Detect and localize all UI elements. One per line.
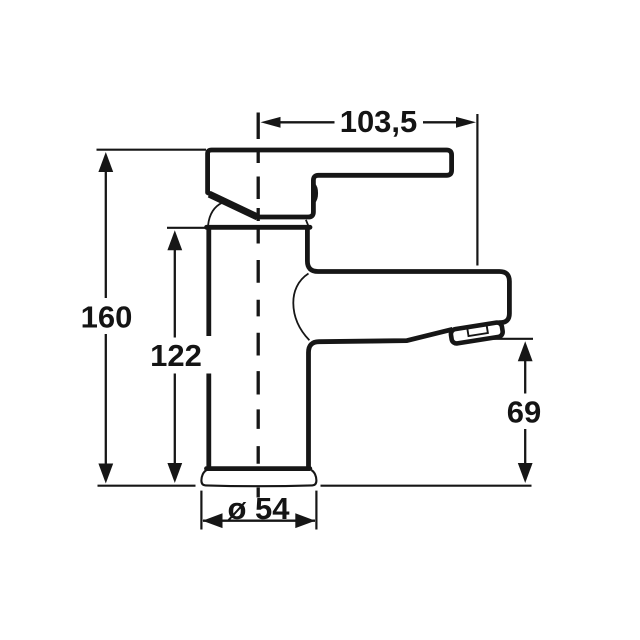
dimension 160 : top arrow <box>98 152 113 172</box>
dimension 160 : top extension line <box>97 149 207 151</box>
dimension 103,5 : right extension line <box>476 114 478 266</box>
svg-text:160: 160 <box>81 299 133 334</box>
handle outline (lever) <box>208 150 452 217</box>
dimension 103,5 : left arrow <box>261 117 281 128</box>
dimension 69 : line lower segment <box>524 429 526 464</box>
base flange <box>201 470 316 486</box>
dimension ø54 : dimension line <box>203 520 315 522</box>
body right edge + spout outline <box>307 227 509 322</box>
dimension 69 : bottom arrow (pointing down) <box>518 463 533 483</box>
aerator inner slot <box>467 326 488 337</box>
dimension ø54 : right arrow (pointing right) <box>295 513 315 528</box>
dimension ø54 : left arrow (pointing left) <box>203 513 223 528</box>
svg-text:69: 69 <box>507 395 541 430</box>
dimension 160 : bottom arrow <box>98 464 113 484</box>
dimension 103,5 : right arrow <box>456 117 476 128</box>
dimension 122 : line lower segment <box>174 374 176 465</box>
dimension 160 : line upper segment <box>105 170 107 298</box>
dimension 103,5 : line left segment <box>278 121 335 123</box>
body bottom edge <box>207 466 310 471</box>
dimension 122 : top extension line <box>167 227 206 229</box>
dimension 122 : line upper segment <box>174 248 176 337</box>
svg-text:122: 122 <box>150 338 202 373</box>
spout underside + body right edge lower <box>309 329 453 468</box>
cartridge bulge on neck right edge <box>313 185 316 202</box>
neck contour line right <box>306 220 309 226</box>
dimension 69 : top reference line at aerator <box>494 338 534 340</box>
mounting surface line right segment <box>321 485 532 487</box>
handle diagonal thick edge <box>209 194 257 217</box>
dimension ø54 : left extension line <box>200 491 202 530</box>
dimension 160 : line lower segment <box>105 334 107 464</box>
aerator outer housing <box>450 322 503 344</box>
dimension 69 : top arrow (pointing up) <box>518 341 533 361</box>
body left edge lower segment <box>206 374 211 469</box>
dome contour arc top-left of body <box>208 203 222 226</box>
dimension ø54 : right extension line <box>315 491 317 530</box>
dimension 122 : top arrow <box>167 230 182 250</box>
body-spout junction contour arc <box>293 274 309 341</box>
body top edge <box>207 225 311 230</box>
dimension 103,5 : line right segment <box>423 121 458 123</box>
dimension 69 : line upper segment <box>524 359 526 393</box>
mounting surface line left segment <box>98 485 196 487</box>
svg-text:103,5: 103,5 <box>340 104 418 139</box>
svg-text:ø 54: ø 54 <box>227 491 290 526</box>
dimension 122 : bottom arrow <box>167 463 182 483</box>
body left edge upper segment <box>206 227 211 336</box>
centerline (dashed vertical axis) <box>257 113 260 498</box>
